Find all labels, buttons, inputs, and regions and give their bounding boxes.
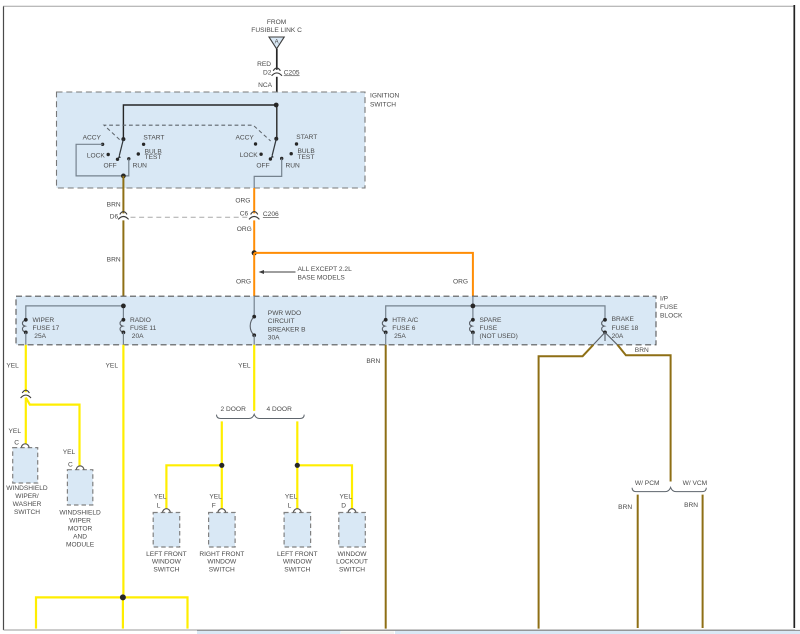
svg-text:ORG: ORG bbox=[236, 279, 251, 286]
connector C206 pin D6 bbox=[110, 212, 249, 221]
svg-text:C6: C6 bbox=[240, 210, 249, 217]
svg-text:OFF: OFF bbox=[256, 162, 269, 169]
svg-text:FUSIBLE LINK C: FUSIBLE LINK C bbox=[251, 27, 302, 34]
svg-text:LOCK: LOCK bbox=[87, 152, 106, 159]
window lockout switch bbox=[336, 493, 368, 573]
svg-text:BRN: BRN bbox=[635, 347, 649, 354]
svg-text:C205: C205 bbox=[284, 69, 300, 76]
svg-text:WINDSHIELD: WINDSHIELD bbox=[59, 510, 101, 517]
svg-text:FUSE 6: FUSE 6 bbox=[392, 325, 415, 332]
svg-text:LOCKOUT: LOCKOUT bbox=[336, 559, 368, 566]
svg-text:AND: AND bbox=[73, 534, 87, 541]
svg-text:BRN: BRN bbox=[684, 502, 698, 509]
wire BRN: ignition pole1 to fuse block bbox=[107, 176, 124, 306]
svg-text:YEL: YEL bbox=[238, 362, 251, 369]
svg-text:SWITCH: SWITCH bbox=[153, 566, 179, 573]
svg-text:RIGHT FRONT: RIGHT FRONT bbox=[199, 551, 244, 558]
svg-text:25A: 25A bbox=[394, 333, 406, 340]
svg-text:FROM: FROM bbox=[267, 19, 286, 26]
svg-text:C: C bbox=[68, 461, 73, 468]
svg-text:L: L bbox=[157, 503, 161, 510]
svg-text:WIPER/: WIPER/ bbox=[15, 493, 39, 500]
fuse RADIO FUSE 11 20A bbox=[120, 317, 157, 345]
svg-text:WIPER: WIPER bbox=[69, 518, 91, 525]
svg-text:WINDSHIELD: WINDSHIELD bbox=[6, 485, 48, 492]
svg-text:2 DOOR: 2 DOOR bbox=[221, 406, 247, 413]
svg-text:SWITCH: SWITCH bbox=[284, 566, 310, 573]
svg-text:LEFT FRONT: LEFT FRONT bbox=[146, 551, 187, 558]
svg-text:ORG: ORG bbox=[453, 279, 468, 286]
wire ORG: splice down to PWR WDO breaker bbox=[236, 253, 254, 296]
left front window switch (2 door) bbox=[146, 493, 187, 573]
wire BRN: W/ VCM branch bbox=[684, 495, 703, 628]
mechanical linkage (dashed) bbox=[104, 125, 271, 141]
svg-text:W/ VCM: W/ VCM bbox=[683, 480, 708, 487]
wire: feed to pole 2 pivot bbox=[276, 105, 278, 139]
wire YEL: 2 door branch bbox=[166, 421, 224, 508]
svg-text:YEL: YEL bbox=[9, 428, 22, 435]
node: feed junction to both switch poles bbox=[274, 103, 279, 108]
node: YEL splice at bottom bbox=[120, 594, 126, 600]
svg-text:NCA: NCA bbox=[258, 82, 273, 89]
wire YEL: radio fuse output, long drop bbox=[106, 345, 124, 598]
svg-text:YEL: YEL bbox=[285, 493, 298, 500]
svg-text:YEL: YEL bbox=[154, 493, 167, 500]
connector C205 pin D2 bbox=[263, 68, 300, 76]
svg-text:YEL: YEL bbox=[63, 449, 76, 456]
svg-text:ACCY: ACCY bbox=[235, 134, 254, 141]
svg-text:YEL: YEL bbox=[6, 362, 19, 369]
wire BRN: brake fuse right branch bbox=[617, 345, 670, 482]
svg-text:D6: D6 bbox=[110, 214, 119, 221]
svg-text:W/ PCM: W/ PCM bbox=[635, 480, 660, 487]
svg-text:20A: 20A bbox=[612, 333, 624, 340]
svg-text:FUSE 17: FUSE 17 bbox=[33, 325, 60, 332]
svg-text:FUSE 11: FUSE 11 bbox=[130, 325, 157, 332]
wire ORG: ignition pole2 to C206 bbox=[235, 188, 254, 213]
svg-text:WINDOW: WINDOW bbox=[338, 551, 368, 558]
svg-text:30A: 30A bbox=[268, 335, 280, 342]
svg-text:SWITCH: SWITCH bbox=[370, 102, 396, 109]
svg-text:(NOT USED): (NOT USED) bbox=[480, 333, 518, 340]
wire ORG: C206 to junction node bbox=[237, 220, 254, 253]
svg-text:MOTOR: MOTOR bbox=[68, 526, 93, 533]
svg-text:PWR WDO: PWR WDO bbox=[268, 310, 301, 317]
wire: brake fuse Y-split inside block bbox=[593, 332, 617, 344]
svg-text:START: START bbox=[296, 134, 317, 141]
svg-text:BASE MODELS: BASE MODELS bbox=[298, 275, 346, 282]
wire YEL: wiper fuse output bbox=[6, 345, 25, 392]
I/P fuse block box bbox=[16, 295, 683, 344]
wire YEL: branch to wiper motor bbox=[26, 398, 80, 469]
svg-text:RUN: RUN bbox=[133, 163, 148, 170]
svg-text:BLOCK: BLOCK bbox=[660, 312, 683, 319]
wire ORG: splice right to HTR/spare/brake feed bbox=[254, 253, 473, 296]
svg-text:BRN: BRN bbox=[366, 358, 380, 365]
component boxes (cut off at page bottom) bbox=[197, 630, 800, 634]
fuse HTR A/C FUSE 6 25A bbox=[382, 317, 418, 345]
circuit breaker B: PWR WDO 30A bbox=[250, 296, 306, 345]
svg-text:SWITCH: SWITCH bbox=[209, 566, 235, 573]
ignition switch pole 1 (contacts + lever) bbox=[83, 134, 165, 169]
svg-text:L: L bbox=[288, 503, 292, 510]
wire: feed to pole 1 pivot bbox=[123, 105, 276, 139]
svg-text:WASHER: WASHER bbox=[13, 501, 42, 508]
brace: 2 DOOR / 4 DOOR split bbox=[217, 406, 305, 418]
wire: pole1 ACCY/RUN loop to BRN output junction bbox=[76, 144, 129, 178]
svg-text:TEST: TEST bbox=[145, 154, 162, 161]
svg-text:RADIO: RADIO bbox=[130, 317, 151, 324]
svg-text:START: START bbox=[143, 134, 164, 141]
right front window switch bbox=[199, 493, 244, 573]
svg-text:WINDOW: WINDOW bbox=[283, 559, 313, 566]
svg-text:4 DOOR: 4 DOOR bbox=[267, 406, 293, 413]
svg-text:D2: D2 bbox=[263, 69, 272, 76]
wire YEL: to windshield wiper/washer switch bbox=[9, 398, 26, 447]
svg-text:SPARE: SPARE bbox=[480, 317, 502, 324]
wire NCA: C205 into ignition switch bbox=[258, 77, 277, 105]
wire YEL: PWR WDO breaker output bbox=[238, 345, 254, 411]
svg-text:LOCK: LOCK bbox=[240, 152, 259, 159]
fuse block bus: ORG entry to HTR/spare/brake fuses bbox=[386, 296, 605, 320]
svg-text:F: F bbox=[212, 503, 216, 510]
left front window switch (4 door) bbox=[277, 493, 318, 573]
note: ALL EXCEPT 2.2L BASE MODELS bbox=[259, 266, 352, 281]
svg-text:SWITCH: SWITCH bbox=[14, 509, 40, 516]
svg-text:HTR A/C: HTR A/C bbox=[392, 317, 418, 324]
svg-text:I/P: I/P bbox=[660, 295, 669, 302]
brace: W/ PCM / W/ VCM split bbox=[632, 480, 707, 492]
svg-text:MODULE: MODULE bbox=[66, 542, 95, 549]
svg-text:YEL: YEL bbox=[106, 362, 119, 369]
svg-text:FUSE: FUSE bbox=[480, 325, 498, 332]
windshield wiper motor and module bbox=[59, 466, 101, 549]
wire YEL: 4 door branch bbox=[295, 421, 352, 508]
svg-text:BRN: BRN bbox=[107, 201, 121, 208]
svg-text:YEL: YEL bbox=[340, 493, 353, 500]
wire YEL: bottom distribution bus bbox=[36, 597, 188, 628]
connector A (from Fusible Link C) bbox=[251, 19, 302, 49]
svg-text:BREAKER B: BREAKER B bbox=[268, 326, 306, 333]
node: ORG splice bbox=[252, 250, 257, 255]
fuse WIPER FUSE 17 25A bbox=[22, 317, 59, 345]
svg-text:SWITCH: SWITCH bbox=[339, 566, 365, 573]
svg-text:ORG: ORG bbox=[235, 198, 250, 205]
svg-text:C: C bbox=[14, 440, 19, 447]
svg-text:25A: 25A bbox=[34, 333, 46, 340]
svg-text:FUSE: FUSE bbox=[660, 304, 678, 311]
svg-text:ACCY: ACCY bbox=[83, 135, 102, 142]
wire RED: fusible link to connector C205 bbox=[257, 49, 277, 70]
svg-text:OFF: OFF bbox=[104, 163, 117, 170]
svg-text:RUN: RUN bbox=[286, 162, 301, 169]
svg-text:D: D bbox=[341, 503, 346, 510]
svg-text:IGNITION: IGNITION bbox=[370, 93, 400, 100]
svg-text:WIPER: WIPER bbox=[33, 317, 55, 324]
svg-text:WINDOW: WINDOW bbox=[207, 559, 237, 566]
svg-text:BRN: BRN bbox=[107, 257, 121, 264]
svg-text:C206: C206 bbox=[263, 211, 279, 218]
svg-text:FUSE 18: FUSE 18 bbox=[612, 325, 639, 332]
wire: pole2 RUN to ORG output bbox=[254, 159, 282, 189]
connector C206 pin C6 bbox=[240, 210, 279, 219]
svg-text:A: A bbox=[275, 40, 279, 46]
svg-text:ORG: ORG bbox=[237, 226, 252, 233]
ignition switch pole 2 (contacts + lever) bbox=[235, 134, 317, 169]
fuse BRAKE FUSE 18 20A bbox=[602, 316, 639, 340]
fuse block bus: BRN entry to wiper/radio fuses bbox=[26, 304, 126, 320]
svg-text:BRN: BRN bbox=[618, 504, 632, 511]
svg-text:YEL: YEL bbox=[209, 493, 222, 500]
fuse SPARE (NOT USED) bbox=[470, 317, 518, 345]
svg-text:ALL EXCEPT 2.2L: ALL EXCEPT 2.2L bbox=[298, 266, 353, 273]
svg-text:TEST: TEST bbox=[298, 154, 315, 161]
svg-text:20A: 20A bbox=[132, 333, 144, 340]
wire BRN: W/ PCM branch bbox=[618, 495, 638, 628]
ignition switch box bbox=[57, 92, 400, 188]
svg-text:RED: RED bbox=[257, 61, 271, 68]
connector on YEL wiper wire bbox=[21, 390, 31, 398]
svg-text:LEFT FRONT: LEFT FRONT bbox=[277, 551, 318, 558]
svg-text:BRAKE: BRAKE bbox=[612, 316, 635, 323]
wire BRN: HTR A/C fuse output bbox=[366, 345, 385, 629]
windshield wiper/washer switch bbox=[6, 444, 48, 516]
svg-text:CIRCUIT: CIRCUIT bbox=[268, 318, 295, 325]
wire BRN: brake fuse left branch bbox=[539, 345, 594, 629]
svg-text:WINDOW: WINDOW bbox=[152, 559, 182, 566]
